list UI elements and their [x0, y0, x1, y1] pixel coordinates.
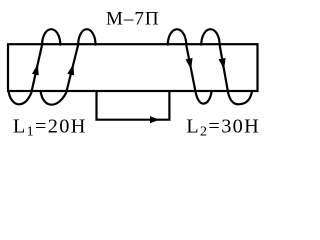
arrow on L2 turn 1 (current direction down) — [185, 58, 192, 69]
core (iron core rectangle) — [8, 44, 258, 91]
arrow on L1 turn 1 (current direction up) — [32, 64, 39, 76]
inductor L2 winding turn 1 — [168, 29, 212, 103]
svg-text:М–7П: М–7П — [106, 9, 160, 30]
svg-text:L1=20H: L1=20H — [13, 116, 87, 140]
connecting wire between L1 and L2 — [97, 91, 170, 120]
inductor L1 winding turn 2 — [41, 29, 96, 105]
inductor L1 winding turn 1 — [9, 29, 61, 104]
arrow on L1 turn 2 (current direction up) — [67, 64, 74, 76]
inductor L2 winding turn 2 — [201, 29, 252, 104]
arrow on L2 turn 2 (current direction down) — [219, 58, 226, 69]
svg-text:L2=30H: L2=30H — [186, 116, 260, 140]
arrow on connecting wire (pointing right) — [150, 116, 159, 123]
